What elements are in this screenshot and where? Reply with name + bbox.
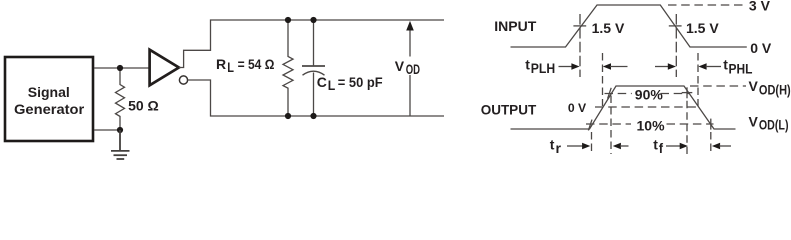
dashed vertical output rising 0V crossing — [602, 53, 604, 106]
arrow tf right — [712, 143, 731, 149]
dashed vertical tf right — [710, 132, 712, 154]
output waveform — [511, 86, 736, 129]
svg-text:r: r — [556, 141, 562, 156]
svg-text:V: V — [749, 78, 759, 94]
node junction bottom (gen/50ohm/gnd) — [117, 127, 123, 133]
dashed 10% level — [586, 123, 631, 125]
ground — [111, 130, 130, 159]
dashed VOD(H) level — [690, 85, 746, 87]
wire inverting output — [188, 80, 444, 116]
tick 1.5V rising — [573, 25, 586, 27]
arrow tPHL right — [698, 63, 721, 69]
signal generator box — [5, 57, 93, 141]
svg-text:1.5 V: 1.5 V — [686, 20, 719, 36]
svg-text:90%: 90% — [635, 87, 664, 103]
svg-text:t: t — [723, 57, 728, 73]
node RL bottom — [285, 113, 291, 119]
tick 90% falling — [686, 87, 688, 98]
dashed vertical tr left — [591, 132, 593, 154]
arrow tr left — [567, 143, 590, 149]
arrow tPLH left — [559, 63, 580, 69]
3V dashed level — [668, 4, 745, 6]
resistor 50 ohm — [116, 68, 159, 130]
svg-text:PLH: PLH — [531, 61, 555, 76]
svg-text:OD(H): OD(H) — [759, 82, 791, 97]
svg-text:0 V: 0 V — [750, 40, 772, 56]
wire generator top output — [94, 67, 149, 69]
svg-text:1.5 V: 1.5 V — [592, 20, 625, 36]
node RL top — [285, 17, 291, 23]
svg-text:t: t — [653, 137, 658, 153]
svg-text:Signal: Signal — [28, 84, 70, 100]
svg-text:INPUT: INPUT — [494, 18, 536, 34]
dashed 0V level output — [595, 106, 700, 108]
wire noninverting output — [179, 20, 444, 68]
svg-text:V: V — [395, 58, 405, 74]
tick 10% falling — [710, 119, 712, 130]
node CL top — [310, 17, 316, 23]
svg-text:Generator: Generator — [14, 102, 85, 118]
dashed 90% level — [605, 93, 632, 95]
inverting output bubble — [179, 76, 187, 84]
svg-text:t: t — [525, 57, 530, 73]
svg-text:V: V — [749, 113, 759, 129]
buffer driver U1 — [150, 50, 179, 86]
svg-text:= 50 pF: = 50 pF — [338, 75, 383, 90]
tick 10% rising — [588, 120, 592, 131]
capacitor CL — [302, 20, 383, 116]
svg-text:OD: OD — [406, 62, 421, 77]
svg-text:10%: 10% — [637, 117, 666, 133]
arrow tf left — [666, 143, 688, 149]
dashed vertical input rising crossing — [579, 14, 581, 77]
arrow tr right — [613, 143, 629, 149]
arrow tPHL left — [655, 63, 676, 69]
svg-text:50 Ω: 50 Ω — [128, 98, 159, 114]
svg-text:3 V: 3 V — [749, 0, 771, 14]
svg-text:0 V: 0 V — [568, 101, 587, 115]
svg-text:= 54 Ω: = 54 Ω — [238, 57, 275, 72]
tick 1.5V falling — [669, 25, 682, 27]
tick 90% rising — [608, 88, 612, 99]
dashed vertical tf left — [686, 101, 688, 154]
svg-text:R: R — [216, 56, 226, 72]
arrow tPLH right — [603, 63, 628, 69]
svg-text:OUTPUT: OUTPUT — [481, 102, 537, 117]
wire generator bottom output — [94, 129, 120, 131]
node junction top (gen/50ohm/buffer) — [117, 65, 123, 71]
dashed vertical input falling crossing — [675, 14, 677, 77]
svg-text:L: L — [227, 60, 234, 75]
svg-text:L: L — [328, 78, 336, 93]
svg-text:t: t — [550, 137, 555, 153]
VOD measurement arrow — [395, 21, 421, 116]
node CL bottom — [310, 113, 316, 119]
input waveform — [511, 5, 747, 47]
svg-text:f: f — [659, 141, 664, 156]
svg-text:C: C — [317, 74, 327, 90]
svg-text:OD(L): OD(L) — [759, 118, 789, 133]
dashed vertical output falling 0V crossing — [697, 53, 699, 106]
svg-text:PHL: PHL — [729, 61, 753, 76]
dashed vertical tr right — [610, 96, 612, 155]
resistor RL — [216, 20, 293, 116]
